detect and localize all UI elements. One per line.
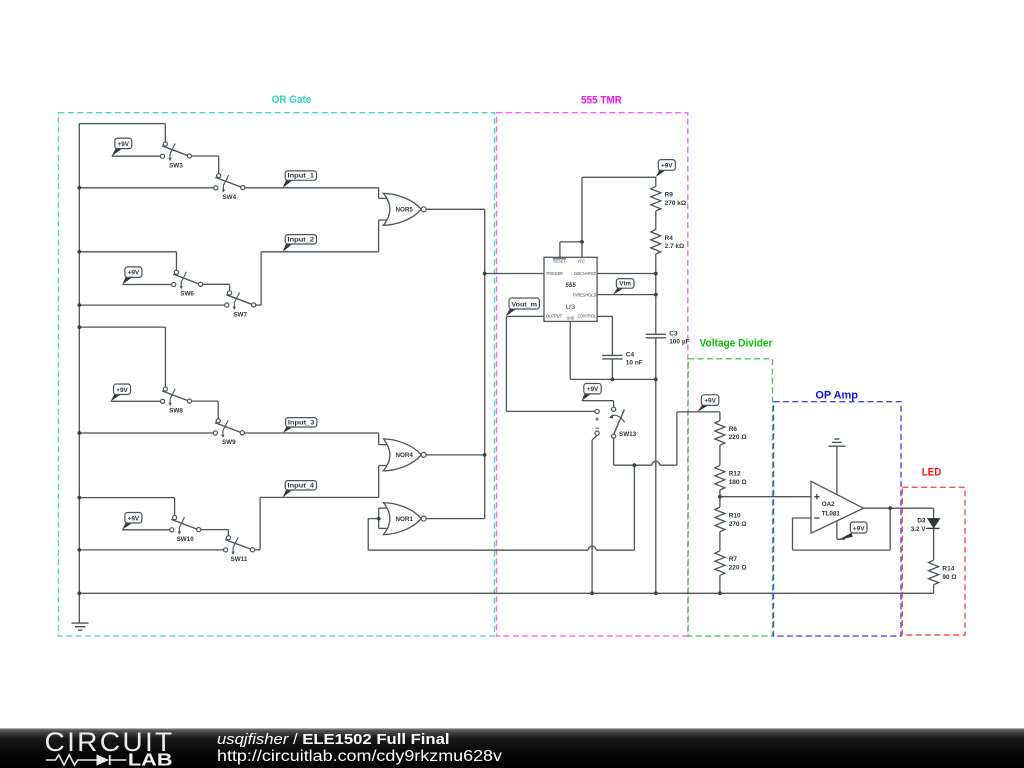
- junction: bus/Input_3 row: [77, 431, 81, 435]
- junction: THRESHOLD node: [654, 293, 658, 297]
- svg-text:NOR1: NOR1: [395, 516, 413, 523]
- svg-text:Input_1: Input_1: [288, 173, 315, 180]
- wire: divider tap to op-amp + input: [720, 496, 811, 498]
- svg-text:SW7: SW7: [233, 311, 247, 318]
- svg-text:TL081: TL081: [822, 510, 841, 517]
- power flag +9V (R9): [656, 160, 676, 177]
- wire: D3 to R14: [933, 528, 935, 560]
- svg-text:90 Ω: 90 Ω: [942, 574, 956, 581]
- wire: 555 RESET to VCC tie: [559, 242, 561, 257]
- svg-text:−: −: [595, 426, 599, 433]
- switch SW3: [160, 142, 191, 170]
- svg-text:10 nF: 10 nF: [626, 360, 643, 367]
- wire: SW4 to NOR5 input A: [243, 187, 379, 189]
- junction: NOR tie/NOR4 out: [483, 453, 487, 457]
- wire: SW3 to SW4: [189, 155, 218, 157]
- svg-text:R6: R6: [729, 426, 738, 433]
- svg-text:R7: R7: [729, 556, 738, 563]
- resistor R12: [715, 465, 747, 490]
- junction: NOR tie/TRIGGER: [483, 272, 487, 276]
- ground (bottom-left): [72, 623, 89, 630]
- svg-text:SW6: SW6: [180, 291, 194, 298]
- junction: ground bus/divider: [718, 591, 722, 595]
- power flag +9V (SW10): [122, 513, 142, 530]
- svg-text:+9V: +9V: [587, 386, 599, 393]
- net flag Vout_m: [506, 298, 540, 316]
- wire: 555 OUTPUT to SW13: [506, 315, 544, 317]
- svg-text:Vtm: Vtm: [619, 281, 631, 288]
- section box: LED: [902, 467, 965, 635]
- junction: C4/ground net: [611, 378, 615, 382]
- op-amp OA2 TL081: [811, 481, 864, 533]
- wire: NOR5 output: [426, 208, 485, 210]
- svg-text:SW3: SW3: [169, 162, 183, 169]
- junction: DISCHARGE node: [654, 272, 658, 276]
- junction: bus/Input_1 row: [77, 186, 81, 190]
- svg-text:SW4: SW4: [222, 194, 236, 201]
- svg-text:100 µF: 100 µF: [669, 339, 689, 346]
- junction: feedback/SW13 node: [633, 463, 637, 467]
- svg-text:C3: C3: [669, 330, 678, 337]
- net flag Input_4: [283, 481, 317, 498]
- svg-text:2.7 kΩ: 2.7 kΩ: [665, 243, 685, 250]
- svg-text:C4: C4: [626, 351, 635, 358]
- switch SW6: [172, 270, 203, 298]
- NOR gate NOR5: [383, 193, 426, 225]
- svg-text:DISCHARGE: DISCHARGE: [574, 271, 597, 276]
- junction: bus/SW10 rail: [77, 496, 81, 500]
- power flag +9V (SW3): [112, 138, 132, 156]
- svg-text:Voltage Divider: Voltage Divider: [700, 338, 773, 350]
- svg-text:OR Gate: OR Gate: [272, 94, 312, 106]
- wire: SW11 to NOR4 input B: [253, 549, 261, 551]
- wire: NOR outputs vertical tie: [484, 209, 486, 518]
- NOR gate NOR1: [383, 503, 426, 535]
- svg-text:+9V: +9V: [661, 163, 673, 170]
- junction: bus/SW8 rail: [77, 325, 81, 329]
- net flag Vtm: [613, 279, 634, 295]
- junction: op-amp out/feedback: [888, 506, 892, 510]
- switch SW7: [225, 291, 256, 319]
- svg-text:Input_3: Input_3: [288, 419, 315, 426]
- svg-text:+9V: +9V: [853, 525, 865, 532]
- svg-text:555: 555: [565, 282, 576, 289]
- switch SW4: [214, 174, 245, 202]
- switch SW13: [595, 407, 637, 438]
- svg-text:+9V: +9V: [116, 387, 128, 394]
- wire: SW13 common to divider: [613, 436, 615, 465]
- svg-text:+: +: [595, 417, 599, 424]
- svg-text:SW11: SW11: [231, 556, 248, 563]
- svg-text:+9V: +9V: [128, 515, 140, 522]
- junction: bus/Input_4 row: [77, 548, 81, 552]
- wire: bottom ground bus: [79, 592, 933, 594]
- resistor R4: [651, 230, 684, 255]
- wire: NOR1 output: [426, 518, 485, 520]
- svg-text:SW13: SW13: [619, 431, 637, 438]
- wire: NOR1 input tie: [378, 508, 380, 528]
- svg-text:220 Ω: 220 Ω: [729, 434, 747, 441]
- wire: +9V to SW6: [122, 284, 173, 286]
- ground (op-amp V-): [828, 439, 845, 446]
- wire: SW13 lower throw to ground bus: [592, 435, 597, 440]
- svg-text:LED: LED: [922, 467, 942, 479]
- wire: divider chain leads: [719, 412, 721, 421]
- junction: bus/Input_2 row: [77, 303, 81, 307]
- svg-text:Vout_m: Vout_m: [511, 301, 537, 308]
- svg-text:SW8: SW8: [169, 408, 183, 415]
- switch SW10: [170, 516, 201, 544]
- svg-text:R4: R4: [665, 235, 674, 242]
- svg-text:3.2 V: 3.2 V: [911, 526, 927, 533]
- switch SW8: [161, 387, 192, 415]
- wire: op-amp - input feedback: [793, 517, 812, 519]
- svg-text:+9V: +9V: [128, 270, 140, 277]
- section box: Voltage Divider: [688, 338, 772, 636]
- op-amp 555 timer U3: [544, 257, 597, 321]
- diode D3 (LED): [911, 518, 940, 533]
- svg-text:180 Ω: 180 Ω: [729, 479, 747, 486]
- section box: OP Amp: [774, 390, 902, 636]
- svg-text:VCC: VCC: [577, 258, 585, 263]
- svg-text:http://circuitlab.com/cdy9rkzm: http://circuitlab.com/cdy9rkzmu628v: [217, 748, 502, 765]
- wire: 555 DISCHARGE: [597, 273, 656, 275]
- wire: bus to SW7 (Input_2 row): [79, 304, 227, 306]
- section box: OR Gate: [59, 94, 495, 636]
- CircuitLab logo: [45, 727, 175, 768]
- svg-text:OUTPUT: OUTPUT: [546, 313, 563, 318]
- wire: SW7 to NOR5 input B: [254, 304, 261, 306]
- svg-text:555 TMR: 555 TMR: [581, 94, 622, 106]
- resistor R9: [651, 186, 686, 211]
- footer bar: [0, 728, 1024, 768]
- svg-text:LAB: LAB: [128, 749, 173, 768]
- svg-text:Input_2: Input_2: [288, 236, 315, 243]
- svg-text:270 kΩ: 270 kΩ: [665, 200, 686, 207]
- switch SW11: [224, 536, 255, 563]
- junction: bus/ground bus: [77, 591, 81, 595]
- resistor R10: [715, 507, 747, 531]
- wire: op-amp V- to ground: [836, 446, 838, 494]
- wire: SW8 to SW9: [190, 400, 219, 402]
- power flag +9V (op-amp V+): [838, 522, 868, 540]
- wire: left supply bus vertical: [78, 124, 80, 623]
- svg-text:U3: U3: [566, 304, 576, 311]
- wire: SW10 to SW11: [199, 529, 229, 531]
- wire: op-amp output to D3: [864, 507, 934, 509]
- wire: NOR1 feedback: [368, 518, 379, 520]
- resistor R7: [715, 551, 747, 576]
- svg-text:SW9: SW9: [222, 439, 236, 446]
- section box: 555 TMR: [497, 94, 688, 636]
- svg-text:GND: GND: [567, 316, 575, 321]
- wire: rail to SW6: [79, 251, 176, 253]
- power flag +9V (SW6): [122, 267, 142, 285]
- wire: rail to SW10: [79, 497, 174, 499]
- power flag +9V (divider): [697, 395, 719, 412]
- junction: RESET/VCC tie: [580, 240, 584, 244]
- wire: C4 bottom to ground net: [611, 359, 613, 380]
- wire: SW9 to NOR4 input A: [242, 432, 378, 434]
- resistor R14: [929, 560, 957, 585]
- wire: rail to SW3: [79, 123, 165, 125]
- wire: NOR4 output: [426, 454, 485, 456]
- svg-text:THRESHOLD: THRESHOLD: [572, 293, 597, 298]
- net flag Input_1: [283, 171, 317, 188]
- svg-text:OP Amp: OP Amp: [815, 390, 858, 402]
- wire: SW6 to SW7: [201, 283, 230, 285]
- wire: VCC to +9V rail: [581, 177, 583, 242]
- svg-text:Input_4: Input_4: [288, 482, 315, 489]
- wire: rail to SW8: [79, 326, 165, 328]
- svg-text:SW10: SW10: [177, 536, 195, 543]
- svg-text:R12: R12: [729, 471, 741, 478]
- wire: 555 CONTROL to C4: [597, 315, 612, 317]
- net flag Input_2: [283, 235, 317, 252]
- junction: ground bus/C3 chain: [654, 591, 658, 595]
- NOR gate NOR4: [383, 439, 426, 471]
- wire: R9/R4/C3 chain leads: [655, 177, 657, 187]
- net flag Input_3: [283, 418, 317, 433]
- svg-text:R10: R10: [729, 512, 741, 519]
- wire: bus to SW9 (Input_3 row): [79, 432, 215, 434]
- power flag +9V (SW8): [111, 384, 131, 401]
- junction: ground bus/SW13: [590, 591, 594, 595]
- svg-text:OA2: OA2: [822, 501, 835, 508]
- power flag +9V (SW13): [582, 384, 602, 401]
- svg-text:TRIGGER: TRIGGER: [546, 271, 564, 276]
- wire: +9V to SW8: [111, 400, 163, 402]
- svg-text:R14: R14: [942, 566, 954, 573]
- wire: 555 THRESHOLD: [597, 294, 656, 296]
- svg-text:RESET: RESET: [553, 258, 567, 263]
- wire: +9V to SW10: [122, 529, 172, 531]
- svg-text:+9V: +9V: [704, 398, 716, 405]
- junction: C3/ground net: [654, 378, 658, 382]
- svg-text:CONTROL: CONTROL: [578, 313, 597, 318]
- junction: NOR1 input tie: [377, 517, 381, 521]
- capacitor C3: [646, 330, 690, 345]
- wire: to 555 TRIGGER: [485, 273, 544, 275]
- svg-text:usqjfisher / ELE1502 Full Fina: usqjfisher / ELE1502 Full Final: [217, 731, 450, 748]
- svg-text:NOR5: NOR5: [395, 207, 413, 214]
- wire: bus to SW11 (Input_4 row): [79, 549, 225, 551]
- switch SW9: [213, 419, 244, 447]
- svg-text:+9V: +9V: [118, 141, 130, 148]
- wire: bus to SW4 (Input_1 row): [79, 187, 216, 189]
- junction: divider tap: [718, 495, 722, 499]
- wire: +9V to SW13 throw: [582, 400, 614, 402]
- svg-text:D3: D3: [917, 518, 926, 525]
- wire: +9V to SW3: [112, 155, 163, 157]
- wire: op-amp V+ stub: [836, 521, 838, 539]
- svg-text:NOR4: NOR4: [395, 452, 413, 459]
- junction: bus/SW6 rail: [77, 250, 81, 254]
- wire: R14 to ground bus: [933, 585, 935, 594]
- wire: 555 GND to ground net: [569, 321, 571, 379]
- capacitor C4: [602, 351, 643, 366]
- svg-text:270 Ω: 270 Ω: [729, 521, 747, 528]
- resistor R6: [715, 421, 747, 446]
- svg-text:220 Ω: 220 Ω: [729, 564, 747, 571]
- svg-text:R9: R9: [665, 192, 674, 199]
